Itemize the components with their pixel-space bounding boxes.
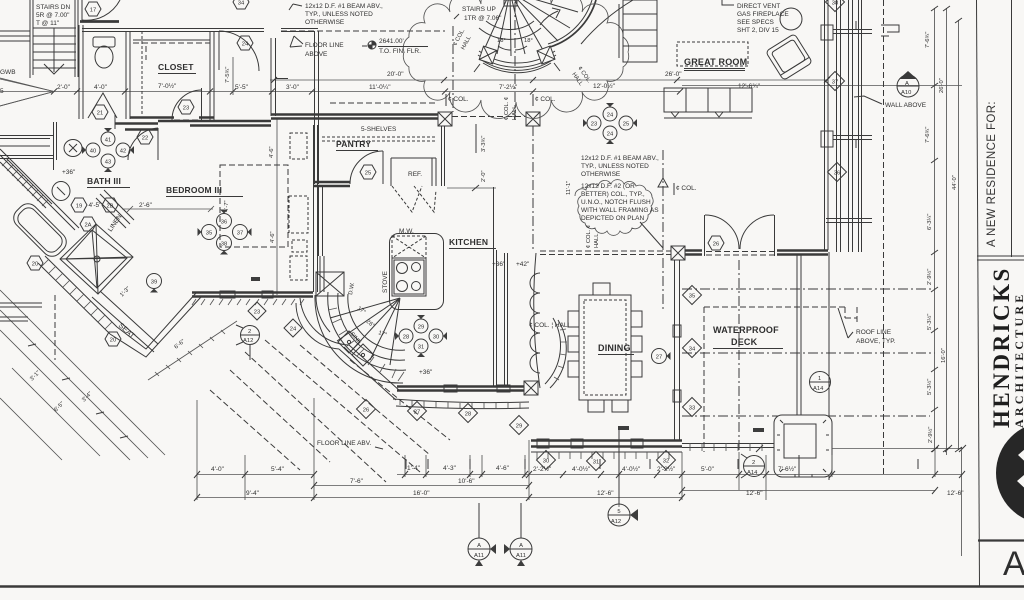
kitchen circle cluster 28-31 [414, 315, 428, 333]
svg-text:STOVE: STOVE [382, 270, 389, 293]
dashed beam to next column [452, 116, 526, 118]
seat inner lines [92, 291, 158, 352]
closet shelf dashed [133, 43, 210, 60]
svg-text:23: 23 [254, 309, 260, 315]
svg-text:16'-0": 16'-0" [941, 348, 947, 363]
svg-text:12'-6": 12'-6" [947, 490, 964, 497]
bedroom east wall [314, 125, 318, 292]
wedge arrows far left [0, 79, 54, 106]
svg-text:2'-9½": 2'-9½" [927, 427, 934, 443]
bedroom ceiling dashed rect [220, 165, 288, 247]
svg-text:BATH III: BATH III [87, 176, 121, 186]
great room south wall [682, 251, 828, 255]
hex bubble 2B [102, 198, 118, 212]
hall door arc top left [82, 0, 120, 20]
closet south wall with door gap [130, 116, 214, 118]
column wall below xbox [271, 38, 276, 116]
svg-text:5-SHELVES: 5-SHELVES [361, 126, 397, 133]
svg-text:3'-0": 3'-0" [286, 84, 300, 91]
stair centerline [514, 2, 516, 120]
chairs left [568, 283, 642, 412]
svg-text:STAIRS UP: STAIRS UP [462, 6, 496, 13]
small threshold mark bedroom [251, 277, 260, 281]
toilet tank [93, 37, 115, 47]
svg-text:12'-0½": 12'-0½" [593, 82, 616, 90]
svg-text:DEPICTED ON PLAN: DEPICTED ON PLAN [581, 215, 645, 222]
svg-text:¢ COL. ¢: ¢ COL. ¢ [504, 97, 510, 120]
svg-text:A14: A14 [813, 386, 824, 392]
svg-text:38: 38 [832, 0, 838, 6]
closet west wall dashed rod [141, 31, 143, 115]
svg-text:29: 29 [418, 324, 424, 330]
burners [397, 263, 421, 292]
svg-text:7'-6": 7'-6" [350, 478, 364, 485]
diamond bubbles deck row [357, 400, 376, 419]
svg-text:7'-6¾": 7'-6¾" [925, 127, 931, 143]
svg-text:A12: A12 [243, 338, 253, 344]
newel stems [474, 63, 560, 72]
svg-text:39: 39 [151, 279, 157, 285]
svg-text:OTHERWISE: OTHERWISE [581, 171, 621, 178]
svg-text:7'-5¾": 7'-5¾" [225, 67, 231, 83]
svg-text:12'-6¾": 12'-6¾" [738, 83, 761, 90]
svg-text:25: 25 [365, 170, 371, 176]
col centerline pantry [452, 26, 454, 112]
kitchen west wall [319, 186, 323, 256]
transom bars lower [826, 219, 872, 223]
column wall stub [276, 78, 288, 80]
svg-text:18°: 18° [524, 38, 533, 44]
svg-text:SEE SPECS: SEE SPECS [737, 19, 775, 26]
svg-text:7'-0½": 7'-0½" [158, 82, 177, 90]
dimension line A y80 [270, 79, 828, 81]
svg-text:35: 35 [689, 293, 695, 299]
svg-text:¢ COL. ¢: ¢ COL. ¢ [586, 225, 592, 248]
bubble 1/A14 [810, 372, 831, 393]
diagonal dim ticks [28, 344, 128, 438]
svg-text:44'-0": 44'-0" [952, 175, 958, 190]
svg-text:A11: A11 [516, 553, 526, 559]
svg-text:7'-6¾": 7'-6¾" [925, 32, 931, 48]
hex bubble 24 [237, 36, 253, 50]
hex bubble 17 [85, 2, 101, 16]
svg-text:30: 30 [433, 334, 439, 340]
hex bubble 25 pantry [360, 165, 376, 179]
svg-text:FLOOR LINE ABV.: FLOOR LINE ABV. [317, 440, 372, 447]
svg-text:20: 20 [110, 337, 116, 343]
svg-text:A: A [1003, 545, 1024, 583]
svg-text:A: A [477, 543, 481, 549]
bay outer deck line right arm [148, 321, 237, 380]
svg-text:12x12 D.F. #2 (OR: 12x12 D.F. #2 (OR [581, 183, 635, 190]
svg-text:2: 2 [752, 460, 755, 466]
spa stem to wall [798, 455, 800, 477]
svg-text:ARCHITECTURE: ARCHITECTURE [1012, 292, 1024, 428]
threshold dark marks [618, 426, 629, 430]
diagonal deck lines lower left [0, 290, 165, 460]
svg-text:¢ COL. ¦ HALL: ¢ COL. ¦ HALL [529, 322, 572, 329]
great room couch top [619, 0, 657, 62]
svg-text:19: 19 [76, 203, 82, 209]
svg-text:ROOF LINE: ROOF LINE [856, 329, 892, 336]
kitchen upper dim line [475, 124, 477, 153]
dim ticks bottom [194, 471, 965, 501]
hex bubble 23 closet [178, 100, 194, 114]
ref door dashed Vs [392, 186, 436, 212]
title block inner cell line [1011, 0, 1013, 257]
floor line above dashed from column [281, 30, 445, 32]
left corridor walls [0, 136, 54, 159]
svg-text:2641.00': 2641.00' [379, 38, 404, 45]
svg-text:4'-0": 4'-0" [211, 466, 225, 473]
wall stub left gwb [0, 31, 30, 41]
cell divider under residence cell [977, 256, 1024, 260]
svg-text:A10: A10 [901, 90, 911, 96]
stair top center box [504, 0, 517, 6]
deck dashed roofline rect [704, 307, 857, 452]
svg-text:42: 42 [120, 148, 126, 154]
svg-text:2'-6": 2'-6" [139, 202, 153, 209]
svg-text:+36": +36" [492, 261, 506, 268]
diamond bubbles dining east [683, 398, 702, 417]
svg-text:28: 28 [465, 411, 471, 417]
svg-text:OTHERWISE: OTHERWISE [305, 19, 345, 26]
svg-text:4'-0": 4'-0" [94, 84, 108, 91]
dim ticks line A [271, 77, 830, 83]
bath south hatched band [38, 256, 117, 334]
colonnade scallops [530, 253, 540, 388]
logo dark circle [996, 422, 1024, 524]
svg-text:33: 33 [689, 405, 695, 411]
svg-text:31: 31 [418, 344, 424, 350]
bay seat walls [110, 293, 201, 357]
svg-text:A: A [519, 543, 523, 549]
svg-text:5'-5": 5'-5" [235, 84, 249, 91]
svg-text:34: 34 [238, 0, 245, 6]
svg-text:+36": +36" [419, 369, 433, 376]
dining north dashed wall [540, 251, 672, 255]
svg-text:34: 34 [689, 346, 696, 352]
svg-text:KITCHEN: KITCHEN [449, 237, 488, 247]
hall circle cluster 23-25 [603, 103, 617, 121]
deck edge below kitchen [393, 399, 529, 409]
svg-text:11'-1": 11'-1" [566, 181, 572, 195]
svg-text:REF.: REF. [408, 171, 422, 178]
dim ticks line B [51, 89, 683, 95]
bottom dim line 3 [197, 491, 935, 498]
svg-text:¢ COL.: ¢ COL. [676, 185, 697, 192]
curved counter arcs [315, 292, 406, 383]
hex bubble 21 [92, 105, 108, 119]
svg-text:CLOSET: CLOSET [158, 62, 194, 72]
deck curve SE of bedroom [296, 298, 349, 349]
counter curve bottom left [316, 296, 330, 332]
svg-text:HENDRICKS: HENDRICKS [989, 266, 1014, 428]
nook curved edge arcs [545, 318, 566, 388]
cell divider above A cell [978, 539, 1024, 541]
svg-text:4'-6": 4'-6" [496, 465, 510, 472]
pantry south wall [314, 182, 350, 186]
stair well outer arc top [581, 0, 633, 44]
bath north wall bands [115, 124, 158, 130]
svg-text:20: 20 [32, 261, 38, 267]
spa structure [774, 415, 832, 477]
pantry west wall [315, 122, 319, 184]
wall above dashed line [883, 0, 885, 477]
toilet room walls [79, 25, 130, 119]
closet right wall [210, 31, 214, 122]
svg-text:ABOVE, TYP.: ABOVE, TYP. [856, 338, 896, 345]
svg-text:18°: 18° [497, 38, 506, 44]
svg-text:TYP., UNLESS NOTED: TYP., UNLESS NOTED [581, 163, 649, 170]
deck region dash-dot lines [682, 289, 935, 416]
svg-text:32: 32 [663, 458, 669, 464]
great room window wall verticals [825, 0, 829, 250]
svg-text:4'-6": 4'-6" [270, 231, 276, 243]
xbox column hall right [526, 112, 540, 126]
svg-text:27: 27 [414, 409, 420, 415]
bottom dim line 1 [197, 474, 962, 476]
svg-text:ABOVE: ABOVE [305, 51, 328, 58]
svg-text:A11: A11 [474, 553, 484, 559]
dimension line B y91.5 [54, 91, 680, 93]
svg-text:5'-3½": 5'-3½" [926, 379, 933, 395]
svg-text:GWB: GWB [0, 69, 16, 76]
svg-text:25: 25 [623, 121, 629, 127]
svg-text:5: 5 [617, 509, 620, 515]
right dim ticks [931, 6, 962, 452]
svg-text:5'-0": 5'-0" [701, 466, 715, 473]
svg-text:4'-3": 4'-3" [443, 465, 457, 472]
svg-text:12'-6": 12'-6" [746, 490, 763, 497]
kitchen island outline [390, 234, 444, 310]
spiral outer heavy arc [550, 0, 596, 47]
rail hatch ticks [690, 443, 762, 451]
svg-text:FLOOR LINE: FLOOR LINE [305, 42, 344, 49]
svg-text:BETTER) COL., TYP.,: BETTER) COL., TYP., [581, 191, 645, 198]
diamond bubbles window wall [826, 72, 845, 91]
svg-text:A14: A14 [747, 470, 758, 476]
hex bubble 34 top [233, 0, 249, 9]
svg-text:22: 22 [142, 135, 148, 141]
svg-text:26'-0": 26'-0" [939, 78, 945, 93]
warning triangle [658, 178, 668, 187]
REF niche walls [391, 158, 436, 186]
dining south wall [531, 441, 682, 447]
stair direction arrow [540, 8, 560, 25]
svg-text:3'-3¾": 3'-3¾" [481, 136, 487, 152]
dining table [579, 295, 631, 400]
french doors [705, 215, 775, 256]
xbox dining NE [671, 246, 685, 260]
wedge lines to dim [0, 78, 54, 106]
svg-text:9'-4": 9'-4" [246, 490, 260, 497]
svg-text:T.O. FIN. FLR.: T.O. FIN. FLR. [379, 48, 421, 55]
left edge wall stubs middle [0, 303, 42, 321]
svg-text:23: 23 [591, 121, 597, 127]
closet door leaf and arc [201, 88, 203, 120]
svg-text:20'-0": 20'-0" [387, 71, 404, 78]
svg-text:2'-9½": 2'-9½" [926, 269, 933, 285]
deck east beam lines [797, 255, 801, 418]
svg-text:4'-0½": 4'-0½" [572, 465, 591, 473]
svg-text:12x12 D.F. #1 BEAM ABV.,: 12x12 D.F. #1 BEAM ABV., [581, 155, 659, 162]
microwave dashed box [392, 236, 426, 258]
hex bubble 26 doors [708, 236, 724, 250]
svg-text:23: 23 [183, 105, 189, 111]
svg-text:4'-0½": 4'-0½" [622, 465, 641, 473]
bedroom window seats [289, 196, 308, 233]
svg-text:7'-6½": 7'-6½" [778, 465, 797, 473]
wall right of column to pantry corner [281, 29, 318, 32]
svg-text:41: 41 [105, 137, 111, 143]
dim line great room 12'-6 3/4 [682, 85, 962, 87]
tub deck walls [0, 149, 79, 230]
windows in south wall [220, 291, 235, 298]
svg-text:TYP., UNLESS NOTED: TYP., UNLESS NOTED [305, 11, 373, 18]
svg-text:24: 24 [607, 131, 614, 137]
pantry shelves dashed [322, 137, 436, 141]
section marker 5/A12 [608, 430, 638, 526]
svg-text:DINING: DINING [598, 343, 631, 353]
svg-text:4'-6": 4'-6" [269, 146, 275, 158]
kitchen south wall [397, 387, 529, 391]
svg-text:2'-0": 2'-0" [57, 84, 71, 91]
circle bubble 39 [147, 274, 162, 293]
svg-text:21: 21 [97, 110, 103, 116]
toilet room door triangle [88, 93, 117, 118]
dining east wall [675, 260, 680, 440]
section marker A/A11 right [504, 503, 532, 566]
svg-text:36: 36 [221, 219, 227, 225]
svg-text:¢ COL.: ¢ COL. [448, 96, 469, 103]
svg-text:10'-6": 10'-6" [458, 478, 475, 485]
svg-text:29: 29 [516, 423, 522, 429]
svg-text:12x12 D.F. #1 BEAM ABV.,: 12x12 D.F. #1 BEAM ABV., [305, 3, 383, 10]
section marker A/A11 left [468, 503, 496, 566]
title block left border [977, 0, 980, 586]
svg-text:31: 31 [593, 459, 599, 465]
section marker 2/A14 [741, 454, 765, 478]
pantry door arc [350, 151, 383, 184]
centerline glyphs [406, 459, 918, 469]
svg-text:1: 1 [818, 376, 821, 382]
svg-text:26: 26 [363, 407, 369, 413]
dw box with X [316, 272, 344, 296]
hex bubble 20b seat arm [105, 332, 121, 346]
closet and hall north wall [82, 29, 264, 32]
bedroom north wall [158, 121, 271, 126]
svg-text:24: 24 [290, 326, 297, 332]
svg-text:HALL: HALL [512, 105, 518, 120]
linen closet diagonal [96, 194, 130, 228]
svg-text:STAIRS DN: STAIRS DN [36, 4, 70, 11]
shower square rotated with X [60, 224, 133, 294]
bedroom circle cluster 35-38 [217, 210, 232, 229]
svg-text:37: 37 [832, 79, 838, 85]
svg-text:A NEW RESIDENCE FOR:: A NEW RESIDENCE FOR: [986, 101, 998, 247]
bath entry door arc [128, 128, 158, 160]
xbox column pantry left [438, 112, 452, 126]
counter hatch ticks on outer band [328, 308, 404, 381]
svg-text:5'-4": 5'-4" [271, 466, 285, 473]
svg-text:17: 17 [90, 7, 96, 13]
wall jog top right [881, 25, 899, 36]
svg-text:M.W.: M.W. [399, 228, 414, 235]
benchmark symbol 2641 [362, 41, 376, 49]
armchair rotated [766, 34, 813, 81]
bottom dim extension verticals [197, 398, 935, 507]
svg-text:2B: 2B [106, 203, 113, 209]
svg-text:A12: A12 [611, 519, 621, 525]
spiral newel xboxes rotated [479, 46, 497, 64]
svg-text:35: 35 [206, 230, 212, 236]
hall east wall down to pantry [315, 31, 319, 122]
svg-text:36: 36 [834, 170, 840, 176]
hex bubble 2A [80, 217, 96, 231]
deck ticks below bedroom south wall [192, 299, 304, 305]
svg-text:1TR @ 7.06": 1TR @ 7.06" [464, 15, 502, 22]
svg-text:DIRECT VENT: DIRECT VENT [737, 3, 780, 10]
door threshold dark band [80, 20, 119, 23]
svg-text:SHT 2, DIV 15: SHT 2, DIV 15 [737, 27, 779, 34]
svg-text:WITH WALL FRAMING AS: WITH WALL FRAMING AS [581, 207, 659, 214]
dashed y103 beam line [330, 102, 437, 104]
section marker 2/A12 bedroom [236, 325, 260, 360]
bottom dim line 2 [314, 485, 529, 487]
dim line right of spa [832, 448, 962, 450]
radial lines from hub [330, 298, 400, 365]
svg-text:+42": +42" [516, 261, 530, 268]
pantry top wall [271, 115, 439, 119]
svg-text:2'-0": 2'-0" [481, 170, 487, 182]
svg-text:28: 28 [403, 334, 409, 340]
bath west hatched wall [0, 158, 52, 208]
svg-text:A: A [905, 81, 909, 87]
dim line bedroom y208 [122, 206, 214, 212]
svg-text:43: 43 [105, 159, 111, 165]
svg-text:2: 2 [248, 329, 251, 335]
svg-text:5: 5 [0, 88, 4, 95]
svg-text:DECK: DECK [731, 337, 758, 347]
vanity circle fixtures [64, 140, 82, 157]
svg-text:HALL: HALL [594, 233, 600, 248]
logo white diamond cutouts [1018, 443, 1024, 468]
dashed rect around great room label [677, 42, 748, 66]
fireplace circle [780, 8, 802, 30]
circle bubble 27 dining [652, 349, 671, 364]
stove box [392, 258, 426, 296]
svg-text:2A: 2A [84, 222, 91, 228]
svg-text:30: 30 [543, 458, 549, 464]
dashed roof diagonal lines deck [210, 340, 450, 482]
revision cloud around stair [403, 0, 628, 119]
svg-text:24: 24 [607, 112, 614, 118]
tub rotated [10, 200, 71, 261]
cloud outline note2 [575, 180, 653, 236]
vertical extension 7'-5 3/4 [232, 57, 234, 95]
svg-text:¢ COL.: ¢ COL. [535, 96, 556, 103]
window post boxes [821, 25, 833, 40]
diamond bubbles bedroom deck [248, 302, 266, 320]
svg-text:26: 26 [713, 241, 719, 247]
toilet bowl [95, 46, 113, 68]
dashed centerline col to dining [532, 126, 534, 250]
counter bar double lines to dining [494, 187, 497, 387]
svg-text:5R @ 7.00": 5R @ 7.00" [36, 12, 70, 19]
svg-text:BEDROOM III: BEDROOM III [166, 185, 222, 195]
deck south rail to spa [682, 444, 774, 448]
